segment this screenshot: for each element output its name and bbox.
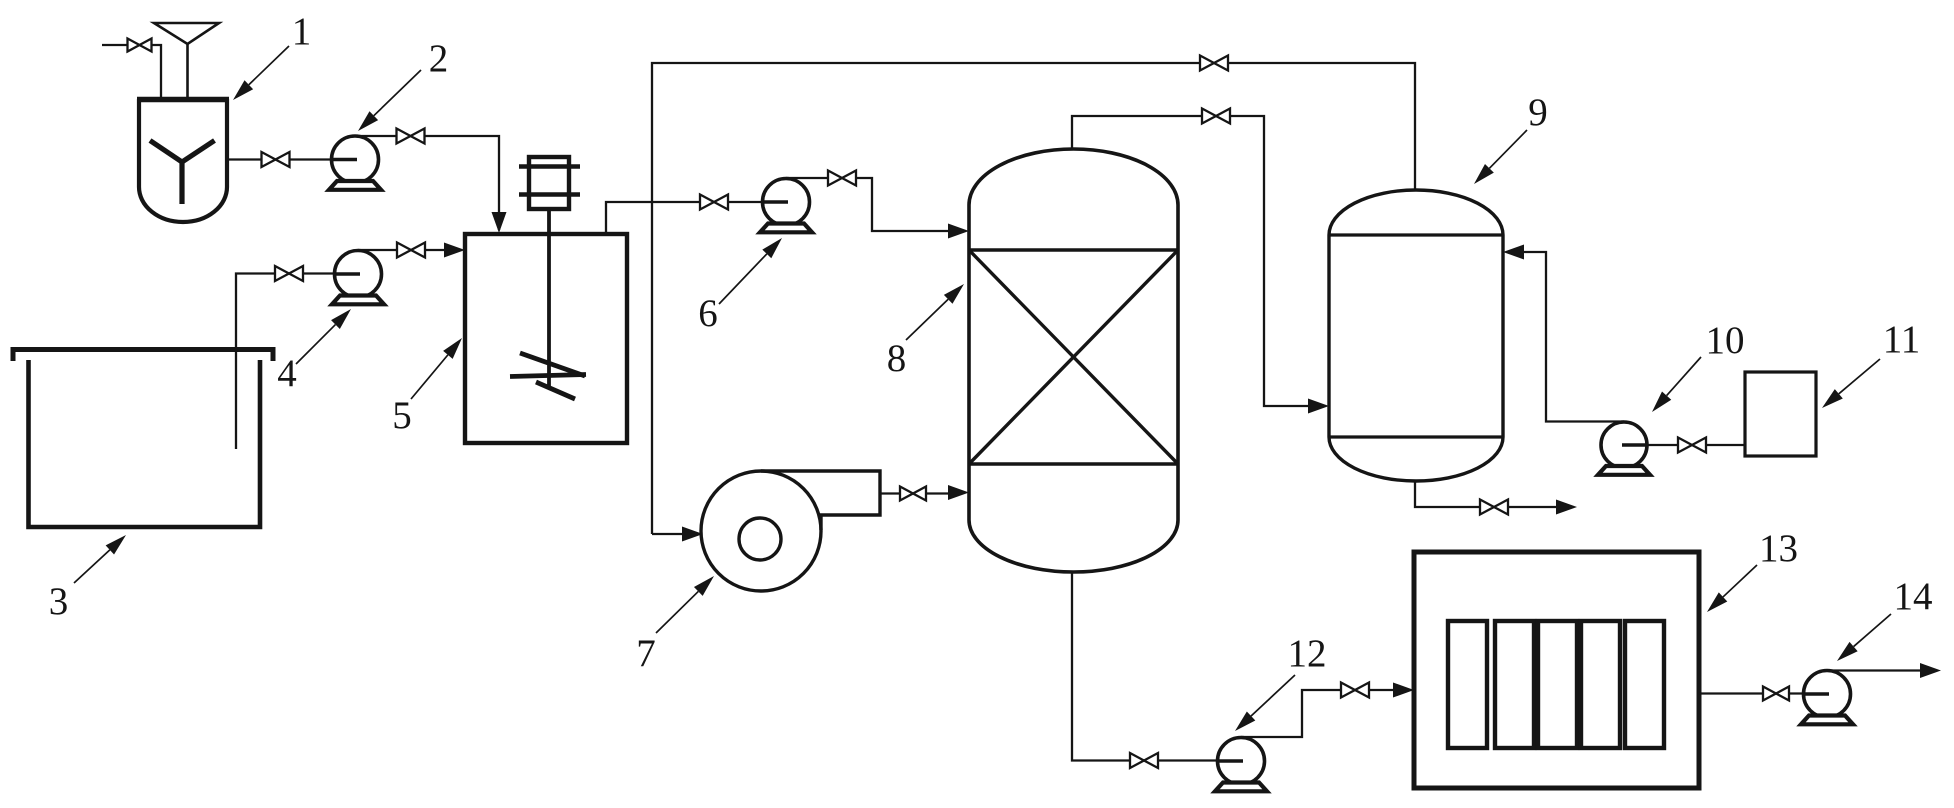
arrow into column 8 upper inlet: [948, 224, 969, 239]
pump 2: [332, 136, 379, 183]
wire vessel 11 to pump 10: [1624, 444, 1745, 446]
wire pump 4 discharge to vessel 5: [358, 249, 460, 251]
impeller of vessel 5: [520, 353, 585, 376]
valve between box 13 and pump 14: [1763, 687, 1789, 701]
valve on pump 2 discharge: [397, 129, 425, 144]
Y-agitator of vessel 1: [150, 141, 182, 163]
arrow into vessel 5 left wall: [444, 243, 465, 258]
wire column 8 bottoms to pump 12: [1072, 572, 1241, 761]
valve between vessel 1 and pump 2: [262, 152, 290, 167]
vessel 9 weld lines: [1329, 233, 1503, 236]
wire gas recycle top line: [652, 63, 1415, 534]
arrow into box 13: [1393, 683, 1414, 698]
pump 10: [1601, 422, 1647, 468]
pump 4: [335, 251, 382, 298]
label 12 arrow: [1251, 675, 1295, 716]
wire pump 12 discharge to box 13: [1241, 690, 1408, 737]
vessel 11: [1745, 372, 1816, 456]
svg-text:14: 14: [1894, 575, 1933, 618]
arrow into blower 7: [682, 527, 703, 542]
label 5 arrow: [411, 355, 448, 399]
label 10 arrow: [1667, 357, 1701, 396]
valve on funnel feed line: [128, 39, 152, 52]
svg-text:4: 4: [277, 352, 297, 395]
tank 3 body: [29, 360, 261, 527]
motor flange bars: [519, 164, 580, 169]
wire vessel 9 bottom outlet: [1415, 481, 1571, 507]
valve on vessel 9 bottom outlet: [1480, 500, 1508, 515]
label 9 arrow: [1489, 130, 1527, 168]
svg-text:9: 9: [1528, 91, 1548, 134]
wire column 8 overhead to vessel 9: [1072, 116, 1323, 406]
box 13 internal plates: [1448, 621, 1487, 748]
arrow at vessel 9 bottom outlet: [1556, 500, 1577, 515]
valve between vessel 5 and pump 6: [700, 195, 728, 210]
wire pump 6 discharge to column 8: [786, 178, 963, 231]
vessel 9 shell: [1329, 190, 1503, 481]
svg-text:10: 10: [1706, 319, 1745, 362]
wire pump 2 discharge to vessel 5: [355, 136, 499, 230]
column 8 packing: [969, 248, 1178, 251]
label 6 arrow: [719, 254, 767, 304]
valve on pump 4 discharge: [397, 243, 425, 258]
wire vessel 1 outlet to pump 2: [227, 158, 355, 160]
box 13 shell: [1414, 552, 1699, 788]
svg-text:2: 2: [429, 37, 449, 80]
svg-text:8: 8: [887, 337, 907, 380]
valve on overhead line: [1202, 109, 1230, 124]
wire blower 7 discharge to column 8: [880, 492, 950, 494]
svg-text:11: 11: [1883, 318, 1921, 361]
wire blower 7 inlet: [652, 533, 698, 535]
valve on top recycle line: [1200, 56, 1228, 71]
valve between vessel 11 and pump 10: [1678, 438, 1706, 453]
arrow at pump 14 discharge end: [1920, 663, 1941, 678]
svg-text:5: 5: [392, 394, 412, 437]
arrow into vessel 9 left wall: [1308, 399, 1329, 414]
svg-text:6: 6: [698, 292, 718, 335]
valve between column 8 and pump 12: [1130, 753, 1158, 768]
column 8 shell: [969, 149, 1178, 572]
label 3 arrow: [74, 550, 110, 583]
label 7 arrow: [656, 591, 698, 633]
arrow into vessel 5 top: [492, 212, 507, 233]
label 13 arrow: [1723, 565, 1757, 597]
svg-text:1: 1: [292, 10, 312, 53]
vessel 5 body: [465, 234, 627, 443]
label 11 arrow: [1839, 359, 1880, 394]
wire pump 14 discharge: [1827, 669, 1935, 671]
label 4 arrow: [296, 325, 335, 364]
label 1 arrow: [249, 46, 289, 85]
arrow into vessel 9 right wall: [1503, 245, 1524, 260]
pump 14: [1804, 671, 1851, 718]
motor on vessel 5: [529, 157, 569, 209]
funnel stem: [186, 44, 189, 99]
svg-text:13: 13: [1759, 527, 1798, 570]
wire tank 3 dip tube to pump 4: [236, 274, 358, 450]
label 8 arrow: [906, 299, 948, 340]
arrow into column 8 lower inlet: [948, 485, 969, 500]
vessel 1 body: [139, 99, 227, 222]
valve on pump 6 discharge: [828, 171, 856, 186]
svg-text:12: 12: [1288, 632, 1327, 675]
funnel of vessel 1: [154, 23, 219, 44]
svg-text:3: 3: [49, 580, 69, 623]
blower 7 volute: [701, 471, 821, 591]
label 14 arrow: [1854, 614, 1891, 647]
pump 6: [763, 179, 810, 226]
tank 3 lid: [13, 350, 273, 362]
wire funnel feed inlet: [102, 45, 161, 99]
agitator shaft of vessel 5: [547, 209, 551, 389]
valve on pump 12 discharge: [1341, 683, 1369, 698]
wire vessel 5 outlet to pump 6: [606, 202, 786, 234]
pump 12: [1218, 738, 1265, 785]
valve between tank 3 and pump 4: [275, 266, 303, 281]
label 2 arrow: [374, 70, 421, 116]
wire pump 10 discharge to vessel 9: [1509, 252, 1624, 422]
valve on blower discharge: [900, 487, 926, 501]
svg-text:7: 7: [636, 632, 656, 675]
wire box 13 outlet to pump 14: [1699, 692, 1827, 694]
